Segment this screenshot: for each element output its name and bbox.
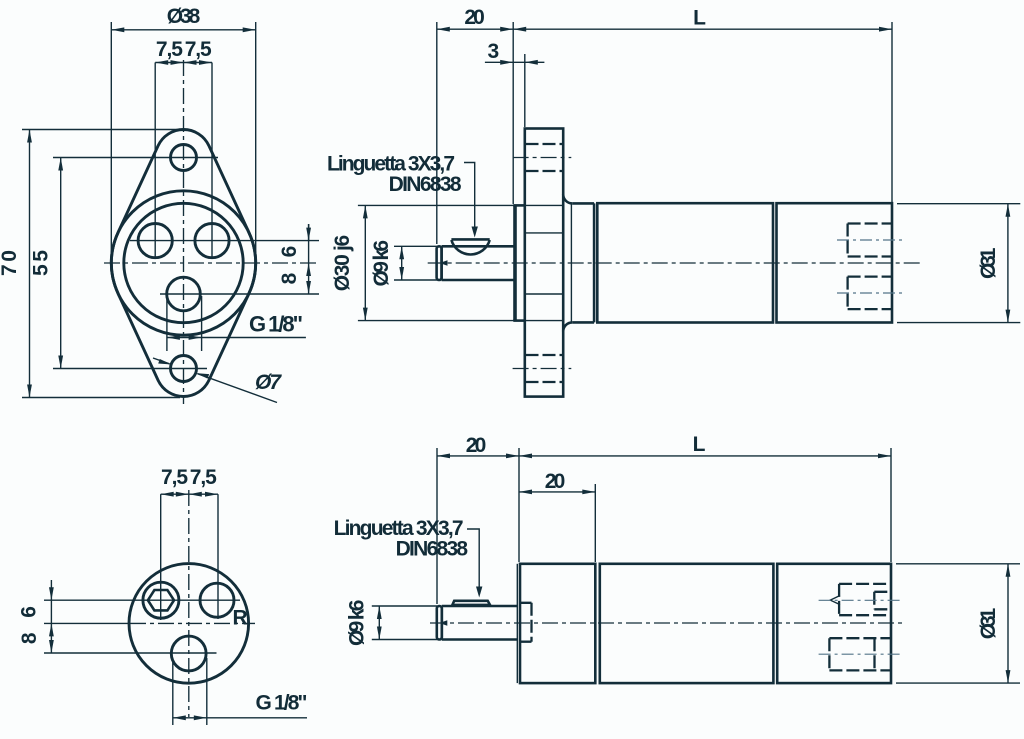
- transistor shaft end cap: [437, 246, 442, 280]
- capacitor keyseat arc: [451, 240, 489, 254]
- svg-text:Ø31: Ø31: [977, 607, 1000, 639]
- resistor body section 1: [597, 203, 773, 322]
- dimension 3: [485, 61, 545, 63]
- svg-text:6: 6: [278, 246, 301, 258]
- VIEW B : side view with flange (top-right): [327, 6, 1020, 397]
- wire hidden hole bottom: [526, 354, 563, 356]
- dimension G 1/8 (view A): [166, 296, 168, 351]
- svg-text:Ø30 j6: Ø30 j6: [331, 235, 354, 292]
- dimension 20 top D: [437, 455, 519, 457]
- svg-text:70: 70: [0, 250, 21, 276]
- dimension O38: [111, 29, 255, 31]
- transistor neck: [572, 202, 594, 205]
- dimension O31 D: [1007, 564, 1009, 683]
- dimension O30 j6: [364, 205, 366, 320]
- resistor body section 3 D: [777, 564, 891, 683]
- dimension L top D: [519, 455, 891, 457]
- svg-text:DIN6838: DIN6838: [389, 173, 462, 196]
- node port hole bottom: [171, 636, 206, 671]
- svg-text:G 1/8": G 1/8": [256, 692, 308, 715]
- svg-text:8: 8: [18, 632, 41, 644]
- svg-text:DIN6838: DIN6838: [396, 537, 469, 560]
- wire line through top hole: [53, 157, 218, 159]
- node port hole left: [138, 224, 172, 258]
- wire plate tangent line lower: [525, 293, 563, 295]
- svg-text:G 1/8": G 1/8": [249, 312, 303, 337]
- wire leader linguetta B: [464, 163, 475, 235]
- svg-text:Ø38: Ø38: [167, 5, 201, 28]
- wire main centerline: [428, 262, 920, 264]
- capacitor key trapezoid: [452, 601, 490, 605]
- svg-text:Ø9 k6: Ø9 k6: [370, 240, 393, 287]
- node port hole right: [195, 224, 229, 258]
- leader O7: [153, 358, 170, 364]
- VIEW C : round flange view (bottom-left): [18, 466, 308, 725]
- node port hole upper-left: [143, 582, 179, 618]
- node rotation arrow on centerline D: [439, 620, 447, 625]
- dimension O31 B: [1007, 204, 1009, 323]
- dimension 7,5 7,5 C: [161, 493, 218, 495]
- node port hidden upper D: [839, 584, 891, 615]
- dimension 7,5 7,5 top: [155, 62, 212, 64]
- node boss circle: [111, 191, 255, 335]
- transistor hex plug: [148, 590, 174, 610]
- dimension 55: [60, 158, 62, 369]
- node bottom mounting hole: [171, 356, 197, 382]
- node rotation arrow on centerline: [440, 260, 448, 265]
- wire ext line right hole: [211, 63, 213, 259]
- wire main centerline D: [430, 622, 905, 624]
- node port hole upper-right: [200, 583, 234, 617]
- wire horizontal centerline C: [44, 622, 130, 624]
- wire hidden bore D: [521, 603, 532, 642]
- wire line through bottom hole: [53, 368, 207, 370]
- svg-text:R: R: [233, 607, 248, 630]
- wire line through upper holes C: [44, 599, 240, 601]
- transistor shaft body: [442, 246, 515, 280]
- svg-text:20: 20: [464, 6, 485, 29]
- resistor body section 2: [777, 203, 893, 322]
- svg-text:7,5: 7,5: [185, 38, 212, 61]
- dimension 70: [29, 130, 31, 398]
- dimension O9 k6 B: [401, 246, 403, 280]
- dimension 20 second D: [519, 491, 595, 493]
- dimension L top B: [513, 28, 892, 30]
- dimension 6 8 C: [50, 580, 52, 653]
- svg-text:Ø31: Ø31: [977, 247, 1000, 279]
- resistor pilot land face: [513, 205, 517, 320]
- wire ext line left hole C: [160, 494, 162, 620]
- wire plate tangent line upper: [525, 232, 563, 234]
- node port hidden upper B: [848, 224, 892, 257]
- node port hidden lower B: [848, 277, 892, 310]
- svg-text:7,5: 7,5: [161, 466, 188, 489]
- resistor body section 2 D: [600, 564, 774, 683]
- wire hidden hole top: [526, 143, 563, 145]
- wire flange outline: [111, 130, 255, 397]
- svg-text:7,5: 7,5: [190, 466, 217, 489]
- wire horizontal centerline: [104, 262, 319, 264]
- wire line through bottom hole C: [44, 652, 217, 654]
- resistor body section 1 D: [516, 564, 518, 683]
- dimension 20 top B: [437, 28, 513, 30]
- transistor shaft end cap D: [437, 606, 442, 640]
- wire line through bottom port: [160, 293, 319, 295]
- node body circle: [129, 564, 249, 684]
- transistor shaft body D: [442, 606, 518, 640]
- wire leader linguetta D: [467, 529, 479, 594]
- wire ext line right hole C: [217, 494, 219, 619]
- svg-text:8: 8: [278, 272, 301, 284]
- VIEW D : side view without flange (bottom-right): [334, 433, 1020, 683]
- dimension O9 k6 D: [378, 606, 380, 640]
- dimension G 1/8 C: [172, 658, 174, 725]
- svg-text:Ø7: Ø7: [255, 371, 282, 394]
- svg-text:3: 3: [488, 40, 500, 63]
- node pilot circle: [124, 203, 243, 322]
- VIEW A : flange front view (top-left): [0, 5, 319, 404]
- svg-text:6: 6: [18, 606, 41, 618]
- svg-text:20: 20: [545, 470, 566, 493]
- wire vertical centerline: [183, 60, 185, 404]
- capacitor keyseat chord: [451, 238, 489, 241]
- dimension 6 8 right: [308, 224, 310, 294]
- node top mounting hole: [171, 145, 197, 171]
- svg-text:7,5: 7,5: [156, 38, 183, 61]
- wire vertical centerline C: [188, 490, 190, 717]
- svg-text:20: 20: [466, 434, 487, 457]
- svg-text:L: L: [693, 433, 706, 456]
- svg-text:Ø9 k6: Ø9 k6: [346, 600, 369, 647]
- wire line through upper ports: [130, 240, 319, 242]
- wire ext line left hole: [154, 63, 156, 259]
- resistor flange plate: [525, 129, 563, 397]
- node port hidden lower D: [829, 638, 891, 670]
- node port hole bottom: [167, 277, 201, 311]
- svg-text:55: 55: [30, 250, 53, 276]
- svg-text:L: L: [693, 7, 706, 30]
